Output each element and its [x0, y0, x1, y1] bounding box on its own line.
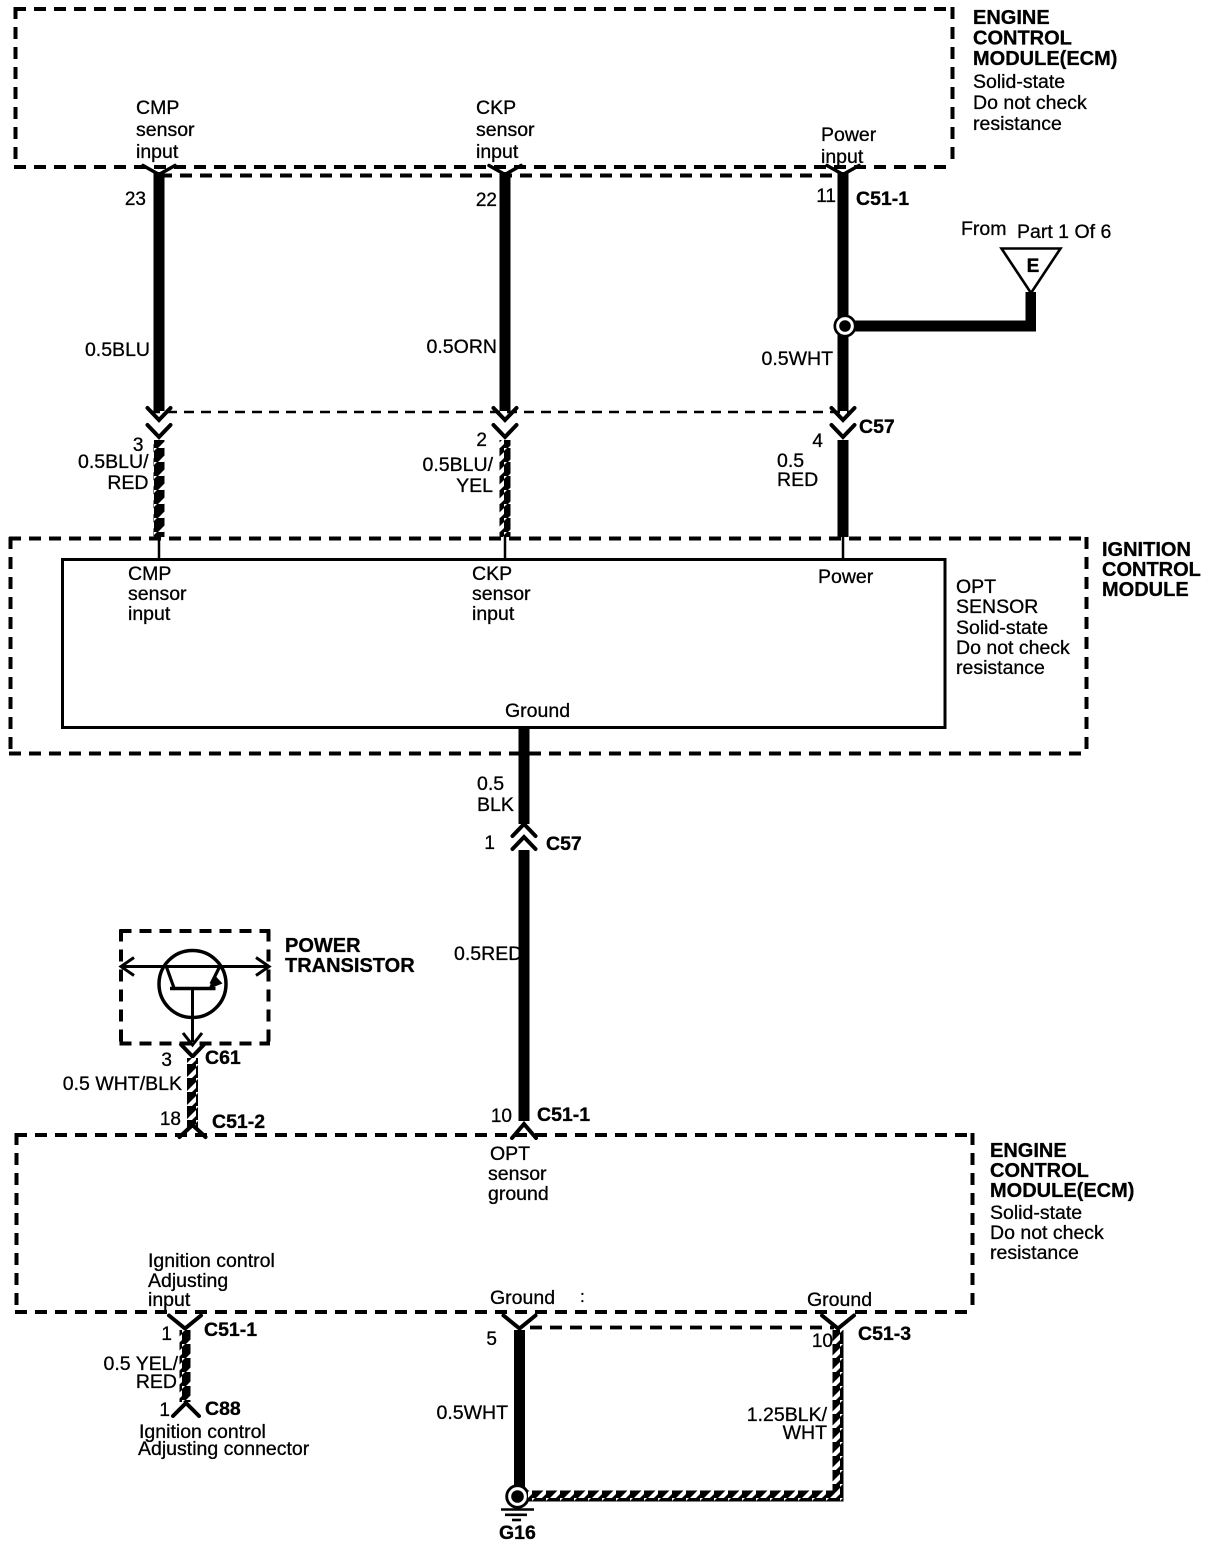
svg-text:Ground: Ground [505, 700, 570, 722]
svg-text:3: 3 [161, 1050, 172, 1071]
svg-text:Solid-state: Solid-state [973, 71, 1065, 93]
svg-text:Solid-state: Solid-state [990, 1202, 1082, 1224]
svg-text:0.5: 0.5 [477, 773, 504, 795]
svg-text:0.5RED: 0.5RED [454, 943, 522, 965]
svg-text:MODULE(ECM): MODULE(ECM) [990, 1180, 1134, 1202]
svg-text:0.5WHT: 0.5WHT [761, 348, 833, 370]
svg-text:C51-3: C51-3 [858, 1323, 911, 1345]
svg-text:10: 10 [491, 1106, 512, 1127]
svg-text:C51-1: C51-1 [856, 188, 909, 210]
svg-text:CONTROL: CONTROL [973, 28, 1072, 50]
svg-text:YEL: YEL [456, 475, 493, 497]
svg-text:CKP: CKP [472, 563, 512, 585]
svg-text:OPT: OPT [490, 1143, 530, 1165]
svg-text::: : [580, 1287, 585, 1306]
svg-text:4: 4 [812, 431, 823, 452]
svg-text:Power: Power [818, 566, 874, 588]
svg-text:18: 18 [160, 1109, 181, 1130]
svg-text:1: 1 [484, 833, 495, 854]
svg-text:Adjusting connector: Adjusting connector [138, 1438, 310, 1460]
svg-text:E: E [1027, 256, 1040, 277]
svg-text:Ground: Ground [807, 1289, 872, 1311]
svg-text:input: input [148, 1289, 191, 1311]
svg-text:Part 1 Of 6: Part 1 Of 6 [1017, 221, 1111, 243]
svg-text:23: 23 [125, 189, 146, 210]
svg-text:22: 22 [476, 190, 497, 211]
svg-text:5: 5 [486, 1329, 497, 1350]
svg-text:C51-1: C51-1 [537, 1104, 590, 1126]
svg-text:resistance: resistance [973, 113, 1062, 135]
svg-text:CMP: CMP [128, 563, 171, 585]
svg-text:G16: G16 [499, 1522, 536, 1544]
svg-text:input: input [136, 141, 179, 163]
svg-text:WHT: WHT [783, 1422, 827, 1444]
svg-text:sensor: sensor [472, 583, 531, 605]
svg-text:BLK: BLK [477, 794, 514, 816]
svg-text:CONTROL: CONTROL [990, 1160, 1089, 1182]
svg-text:11: 11 [816, 186, 836, 207]
svg-text:Solid-state: Solid-state [956, 617, 1048, 639]
svg-text:0.5BLU: 0.5BLU [85, 339, 150, 361]
svg-text:MODULE: MODULE [1102, 579, 1189, 601]
svg-text:MODULE(ECM): MODULE(ECM) [973, 48, 1117, 70]
svg-text:Do not check: Do not check [973, 92, 1087, 114]
svg-text:POWER: POWER [285, 935, 361, 957]
svg-text:SENSOR: SENSOR [956, 596, 1038, 618]
svg-text:Ignition control: Ignition control [148, 1250, 275, 1272]
svg-text:CMP: CMP [136, 97, 179, 119]
svg-text:sensor: sensor [488, 1163, 547, 1185]
svg-text:From: From [961, 218, 1007, 240]
svg-text:C57: C57 [859, 416, 895, 438]
svg-text:0.5ORN: 0.5ORN [427, 336, 497, 358]
svg-text:0.5BLU/: 0.5BLU/ [78, 451, 149, 473]
svg-text:0.5BLU/: 0.5BLU/ [423, 454, 494, 476]
svg-text:C88: C88 [205, 1398, 241, 1420]
svg-text:CONTROL: CONTROL [1102, 559, 1201, 581]
svg-text:RED: RED [107, 472, 148, 494]
svg-text:CKP: CKP [476, 97, 516, 119]
svg-text:10: 10 [812, 1331, 833, 1352]
svg-text:OPT: OPT [956, 576, 996, 598]
svg-text:RED: RED [136, 1371, 177, 1393]
svg-text:TRANSISTOR: TRANSISTOR [285, 955, 415, 977]
svg-text:ground: ground [488, 1183, 549, 1205]
svg-text:IGNITION: IGNITION [1102, 539, 1191, 561]
svg-text:2: 2 [476, 430, 487, 451]
svg-text:C51-2: C51-2 [212, 1111, 265, 1133]
svg-text:input: input [472, 603, 515, 625]
svg-text:input: input [476, 141, 519, 163]
svg-text:Do not check: Do not check [956, 637, 1070, 659]
svg-text:Ground: Ground [490, 1287, 555, 1309]
svg-text:Power: Power [821, 124, 877, 146]
svg-text:sensor: sensor [128, 583, 187, 605]
svg-text:input: input [128, 603, 171, 625]
svg-text:0.5 WHT/BLK: 0.5 WHT/BLK [63, 1073, 182, 1095]
svg-text:C57: C57 [546, 833, 582, 855]
svg-text:1: 1 [161, 1324, 172, 1345]
svg-text:C61: C61 [205, 1047, 241, 1069]
svg-text:ENGINE: ENGINE [973, 7, 1050, 29]
svg-text:resistance: resistance [990, 1242, 1079, 1264]
svg-text:resistance: resistance [956, 657, 1045, 679]
svg-text:RED: RED [777, 469, 818, 491]
svg-text:Do not check: Do not check [990, 1222, 1104, 1244]
svg-text:sensor: sensor [476, 119, 535, 141]
svg-text:ENGINE: ENGINE [990, 1140, 1067, 1162]
svg-text:1: 1 [159, 1400, 170, 1421]
svg-text:C51-1: C51-1 [204, 1319, 257, 1341]
svg-text:0.5WHT: 0.5WHT [436, 1402, 508, 1424]
svg-text:sensor: sensor [136, 119, 195, 141]
